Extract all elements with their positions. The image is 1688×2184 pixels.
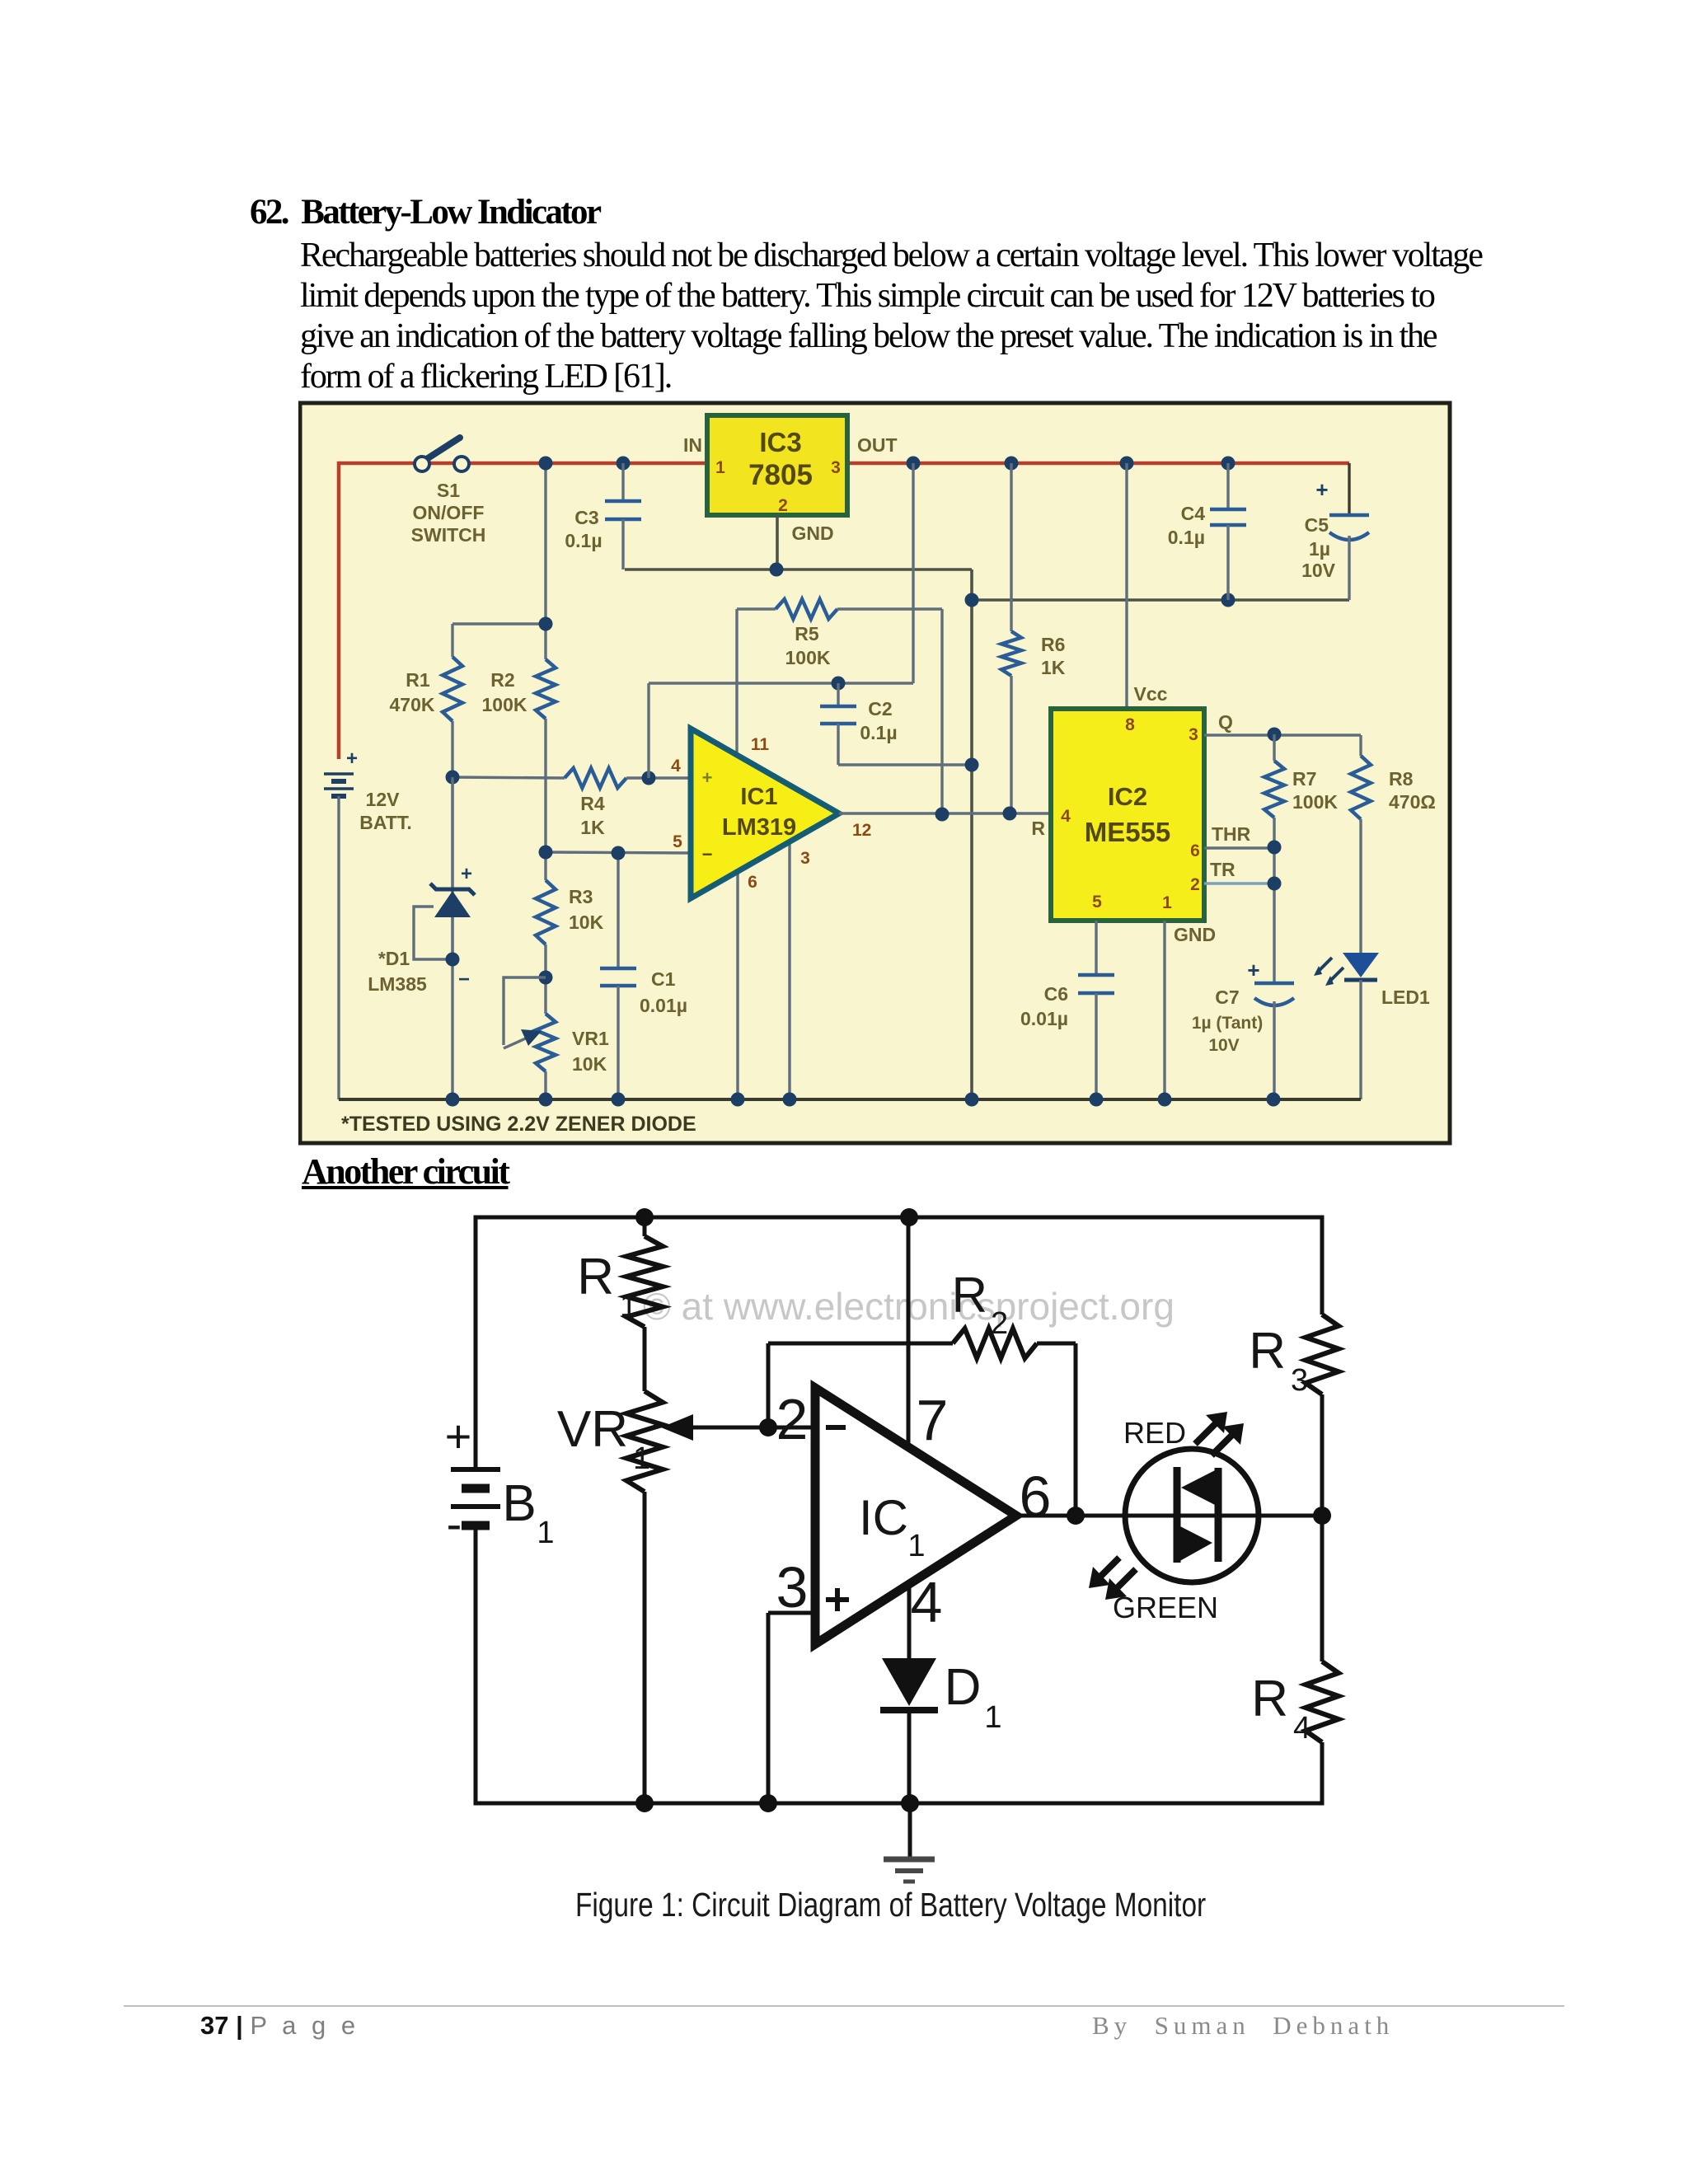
junction dots bottom rail (635, 1794, 919, 1812)
footer page number (200, 2011, 359, 2041)
regulator IC3 7805 (707, 415, 847, 515)
svg-text:4: 4 (911, 1570, 943, 1634)
wire output (1016, 1514, 1322, 1518)
heading Another circuit (302, 1151, 509, 1193)
label GND 555 (1174, 924, 1216, 945)
svg-text:4: 4 (671, 757, 681, 776)
svg-text:10K: 10K (569, 912, 604, 933)
label VR1 (572, 1028, 609, 1075)
label VR1 (557, 1401, 650, 1476)
junction dot THR (1268, 841, 1282, 855)
svg-text:7805: 7805 (748, 459, 813, 491)
capacitor C1 (600, 854, 636, 1099)
wire R2 branch (544, 463, 546, 1099)
svg-text:R: R (1249, 1323, 1286, 1380)
svg-text:1K: 1K (1041, 657, 1066, 678)
label LED1 (1381, 987, 1430, 1008)
junction dot C2 top (832, 677, 846, 691)
wire R4 to pin4 (626, 776, 691, 779)
resistor R5 (737, 599, 942, 619)
resistor R1 (443, 657, 462, 721)
label R4 (580, 793, 605, 838)
svg-text:8: 8 (1125, 715, 1135, 734)
label Q pin (1218, 711, 1233, 733)
svg-text:R6: R6 (1041, 634, 1065, 655)
svg-text:GREEN: GREEN (1113, 1591, 1218, 1624)
svg-text:B: B (502, 1475, 536, 1532)
label C1 (640, 968, 687, 1016)
label GREEN (1113, 1591, 1218, 1624)
svg-text:LM319: LM319 (722, 814, 796, 841)
svg-text:1: 1 (620, 1289, 637, 1324)
led bicolor (1125, 1449, 1259, 1582)
svg-text:C1: C1 (651, 968, 676, 990)
schematic 2: battery voltage monitor (396, 1199, 1426, 1924)
label B1 plus (445, 1410, 472, 1462)
wire TR (1204, 882, 1274, 884)
svg-text:+: + (461, 863, 472, 885)
label C7 (1192, 987, 1263, 1055)
svg-text:BATT.: BATT. (359, 812, 411, 833)
capacitor C3 (605, 463, 641, 569)
svg-text:IC1: IC1 (740, 784, 777, 810)
resistor R4 (1306, 1661, 1339, 1742)
svg-text:*TESTED USING 2.2V ZENER DIODE: *TESTED USING 2.2V ZENER DIODE (341, 1113, 696, 1136)
svg-text:+: + (346, 748, 358, 770)
resistor R6 (1001, 463, 1021, 813)
svg-text:+: + (1315, 477, 1328, 502)
resistor R1 (626, 1217, 663, 1327)
label battery plus (346, 748, 358, 770)
label IC1 (859, 1490, 926, 1563)
svg-text:C6: C6 (1044, 983, 1068, 1005)
battery B1 (451, 1469, 500, 1526)
svg-text:3: 3 (831, 458, 841, 477)
svg-text:0.01µ: 0.01µ (640, 995, 687, 1016)
wire pin3 node (768, 1613, 815, 1803)
wire pin4 to 5V row (647, 683, 649, 778)
svg-text:-: - (447, 1497, 462, 1549)
junction dots output (935, 807, 1017, 822)
resistor R7 (1264, 734, 1284, 983)
svg-text:THR: THR (1212, 823, 1251, 845)
wire right rail mid (1320, 1394, 1325, 1661)
green arrows (1089, 1558, 1136, 1600)
resistor R8 (1351, 735, 1371, 953)
junction dot TR (1268, 877, 1282, 891)
junction dots top rail (539, 457, 1236, 471)
junction dots pin5 row (539, 846, 626, 860)
wire pin6 (736, 872, 738, 1099)
svg-text:6: 6 (1190, 841, 1200, 860)
svg-text:3: 3 (776, 1555, 809, 1619)
opamp plus (826, 1588, 849, 1611)
svg-text:ON/OFF: ON/OFF (413, 502, 485, 523)
paragraph body (300, 236, 1482, 397)
junction dot R1/R2 tap (539, 617, 553, 631)
label D1 (945, 1659, 1002, 1735)
junction dot ref (446, 771, 460, 785)
label IC2 (1085, 782, 1171, 847)
svg-text:IC3: IC3 (759, 427, 801, 457)
svg-text:IC2: IC2 (1108, 782, 1147, 811)
label C6 (1020, 983, 1068, 1029)
svg-text:470K: 470K (390, 694, 435, 715)
svg-text:6: 6 (1020, 1465, 1052, 1529)
label IC3 (748, 427, 813, 491)
svg-text:+: + (1247, 958, 1259, 982)
svg-text:100K: 100K (785, 647, 831, 668)
svg-text:GND: GND (1174, 924, 1216, 945)
svg-text:3: 3 (800, 849, 810, 868)
svg-text:7: 7 (917, 1388, 949, 1452)
pin labels IC1 (671, 735, 871, 892)
svg-text:1µ (Tant): 1µ (Tant) (1192, 1014, 1263, 1033)
footer rule (124, 2005, 1564, 2007)
svg-text:VR1: VR1 (572, 1028, 609, 1049)
wire gnd to C4 C5 (972, 598, 1349, 602)
junction dot pin2 node (759, 1418, 777, 1436)
wire D1 loop (414, 907, 452, 959)
label R2 (952, 1268, 1008, 1341)
svg-text:R: R (952, 1268, 987, 1323)
op-amp IC1 LM319 (691, 729, 839, 898)
junction dot output rail (1313, 1507, 1331, 1525)
label B1 (502, 1475, 554, 1550)
wire pin2 (768, 1426, 815, 1430)
svg-text:R2: R2 (490, 669, 514, 691)
svg-text:12V: 12V (366, 789, 401, 810)
label R4 (1251, 1671, 1311, 1746)
svg-text:R4: R4 (580, 793, 605, 814)
svg-text:SWITCH: SWITCH (411, 524, 486, 546)
schematic 1: battery-low indicator (298, 401, 1452, 1146)
junction dots gnd row (965, 593, 1236, 607)
wire Vcc feed (1125, 463, 1128, 709)
label R3 (1249, 1323, 1308, 1398)
junction dot feedback (1067, 1507, 1085, 1525)
svg-text:D: D (945, 1659, 982, 1716)
label R7 (1292, 768, 1338, 813)
preset VR1 (504, 977, 556, 1071)
svg-text:*D1: *D1 (378, 948, 410, 969)
wire pin7 (907, 1217, 911, 1443)
label IC1 (722, 784, 796, 841)
label pin7 (917, 1388, 949, 1452)
resistor R2 (536, 659, 556, 719)
wire R5 feedback (940, 609, 943, 814)
label C7 plus (1247, 958, 1259, 982)
svg-text:ME555: ME555 (1085, 817, 1171, 847)
label R5 (785, 623, 831, 668)
capacitor C6 (1078, 921, 1114, 1099)
svg-text:1: 1 (715, 458, 725, 477)
label pin3 (776, 1555, 809, 1619)
ground symbol (884, 1803, 935, 1882)
diode D1 (880, 1658, 938, 1803)
svg-text:R3: R3 (569, 886, 593, 907)
label D1 minus (458, 968, 470, 991)
svg-text:5: 5 (673, 832, 682, 851)
svg-text:12: 12 (852, 821, 871, 840)
svg-text:GND: GND (791, 523, 833, 544)
svg-text:1: 1 (984, 1700, 1001, 1735)
svg-text:R7: R7 (1292, 768, 1316, 790)
preset VR1 (626, 1327, 663, 1803)
led LED1 (1314, 953, 1379, 1099)
zener D1 (430, 777, 475, 959)
svg-text:+: + (702, 767, 713, 788)
opamp plus minus (702, 767, 713, 865)
op-amp IC1 (815, 1388, 1016, 1644)
svg-text:3: 3 (1291, 1363, 1308, 1398)
junction dots ground rail (446, 1093, 1281, 1107)
wire 555 pin1 gnd (1163, 921, 1165, 1099)
pin labels IC3 (715, 458, 841, 515)
resistor R3 (1306, 1315, 1339, 1394)
opamp minus (826, 1425, 846, 1430)
svg-text:1: 1 (537, 1516, 554, 1550)
svg-text:IN: IN (683, 434, 702, 456)
label 12V BATT (359, 789, 411, 833)
ground rail (339, 1098, 1361, 1101)
label IN (683, 434, 702, 456)
wire feedback down (1074, 1343, 1078, 1516)
label C2 (860, 698, 897, 743)
svg-text:100K: 100K (1292, 791, 1338, 813)
svg-text:1: 1 (633, 1441, 650, 1476)
junction dots top rail (635, 1208, 918, 1226)
svg-text:1: 1 (1162, 893, 1172, 912)
svg-text:−: − (458, 968, 470, 991)
resistor R4 (565, 768, 626, 788)
label R pin (1031, 818, 1045, 839)
switch S1 (415, 438, 469, 471)
label GND 7805 (791, 523, 833, 544)
svg-text:1: 1 (907, 1529, 925, 1563)
label OUT (857, 434, 898, 456)
label D1 plus (461, 863, 472, 885)
svg-text:1K: 1K (580, 817, 605, 838)
label C5 (1301, 514, 1336, 581)
resistor R2 (768, 1329, 1076, 1358)
label pin2 (776, 1387, 809, 1451)
svg-text:0.01µ: 0.01µ (1020, 1008, 1068, 1029)
wire top rail and upper rails (476, 1217, 1322, 1469)
svg-text:C2: C2 (868, 698, 892, 719)
label pin6 (1020, 1465, 1052, 1529)
svg-text:R: R (1031, 818, 1045, 839)
wire THR (1204, 846, 1274, 849)
svg-text:3: 3 (1189, 725, 1198, 744)
label D1 (368, 948, 427, 995)
label R3 (569, 886, 604, 933)
svg-text:10V: 10V (1301, 560, 1336, 581)
svg-text:LED1: LED1 (1381, 987, 1430, 1008)
svg-text:4: 4 (1061, 807, 1071, 826)
svg-text:R: R (1251, 1671, 1288, 1727)
note tested (341, 1113, 696, 1136)
red arrows (1195, 1412, 1244, 1455)
caption Figure 1 (575, 1886, 1113, 1924)
svg-text:R1: R1 (406, 669, 430, 691)
label THR (1212, 823, 1251, 845)
wire pin3 (788, 842, 790, 1099)
wire pin4 diode (907, 1584, 912, 1658)
watermark (643, 1285, 1175, 1328)
svg-text:0.1µ: 0.1µ (565, 530, 602, 551)
wire bottom rail and lower rails (476, 1526, 1322, 1803)
junction dot 7805 gnd (770, 563, 784, 577)
junction dot VR1 top (539, 971, 553, 985)
wire feedback up (767, 1343, 771, 1427)
svg-text:C4: C4 (1181, 503, 1206, 524)
battery 12V BATT (324, 774, 354, 1099)
svg-text:10K: 10K (572, 1053, 607, 1075)
svg-text:−: − (702, 844, 713, 865)
svg-text:S1: S1 (437, 480, 460, 501)
label C4 (1168, 503, 1205, 548)
svg-text:TR: TR (1210, 859, 1236, 880)
svg-text:10V: 10V (1208, 1036, 1239, 1055)
svg-text:Q: Q (1218, 711, 1233, 733)
label R1 (577, 1249, 637, 1324)
wire Q output (1204, 733, 1361, 736)
junction dot D1 bottom (446, 953, 460, 967)
capacitor C2 (820, 683, 972, 765)
junction dot C2 gnd (965, 758, 979, 772)
label R2 (482, 669, 527, 715)
svg-text:100K: 100K (482, 694, 527, 715)
junction dot R7 top (1268, 728, 1282, 742)
svg-text:4: 4 (1293, 1711, 1311, 1746)
label S1 (411, 480, 486, 546)
svg-text:R8: R8 (1389, 768, 1414, 790)
wire pin5 row (546, 852, 691, 853)
footer author (1092, 2011, 1394, 2041)
svg-text:6: 6 (748, 873, 757, 892)
label pin4 (911, 1570, 943, 1634)
svg-text:2: 2 (778, 496, 788, 515)
label R6 (1041, 634, 1066, 678)
heading 62. Battery-Low Indicator (250, 192, 599, 232)
label B1 minus (447, 1497, 462, 1549)
svg-text:0.1µ: 0.1µ (860, 722, 897, 743)
wire reference node (452, 777, 565, 778)
svg-text:1µ: 1µ (1309, 538, 1330, 560)
svg-text:+: + (445, 1410, 472, 1462)
label C3 (565, 507, 602, 551)
timer IC2 ME555 (1051, 709, 1204, 921)
junction dot pin4 node (642, 771, 656, 785)
wire IC1 output (839, 812, 1051, 814)
wire pin11 feed (735, 609, 738, 755)
svg-text:C7: C7 (1215, 987, 1239, 1008)
svg-text:OUT: OUT (857, 434, 898, 456)
svg-text:5: 5 (1092, 893, 1102, 912)
wire 5V row (649, 463, 913, 683)
wire 12V positive rail (red) (339, 463, 1349, 759)
svg-text:C5: C5 (1305, 514, 1329, 536)
label Vcc (1134, 683, 1168, 705)
capacitor C5 (1329, 463, 1369, 600)
svg-text:LM385: LM385 (368, 973, 427, 995)
svg-text:C3: C3 (574, 507, 598, 528)
wire R1 branch (452, 624, 546, 1099)
svg-text:2: 2 (1190, 875, 1200, 894)
capacitor C4 (1210, 463, 1246, 600)
wire 7805 ground (625, 515, 972, 1099)
svg-text:11: 11 (751, 735, 770, 754)
schematic background (300, 403, 1450, 1143)
label R1 (390, 669, 435, 715)
pin labels IC2 (1061, 715, 1200, 912)
svg-text:0.1µ: 0.1µ (1168, 527, 1205, 548)
label TR (1210, 859, 1236, 880)
label C5 plus (1315, 477, 1328, 502)
label R8 (1389, 768, 1436, 813)
svg-text:VR: VR (557, 1401, 628, 1458)
resistor R3 (536, 880, 556, 944)
svg-text:2: 2 (776, 1387, 809, 1451)
svg-text:2: 2 (991, 1306, 1008, 1341)
svg-text:IC: IC (859, 1490, 908, 1545)
svg-text:RED: RED (1123, 1416, 1186, 1450)
wiper arrow (661, 1414, 768, 1441)
svg-text:R: R (577, 1249, 614, 1305)
svg-text:Vcc: Vcc (1134, 683, 1168, 705)
capacitor C7 (1254, 983, 1294, 1099)
svg-text:470Ω: 470Ω (1389, 791, 1436, 813)
svg-text:R5: R5 (795, 623, 819, 644)
label RED (1123, 1416, 1186, 1450)
